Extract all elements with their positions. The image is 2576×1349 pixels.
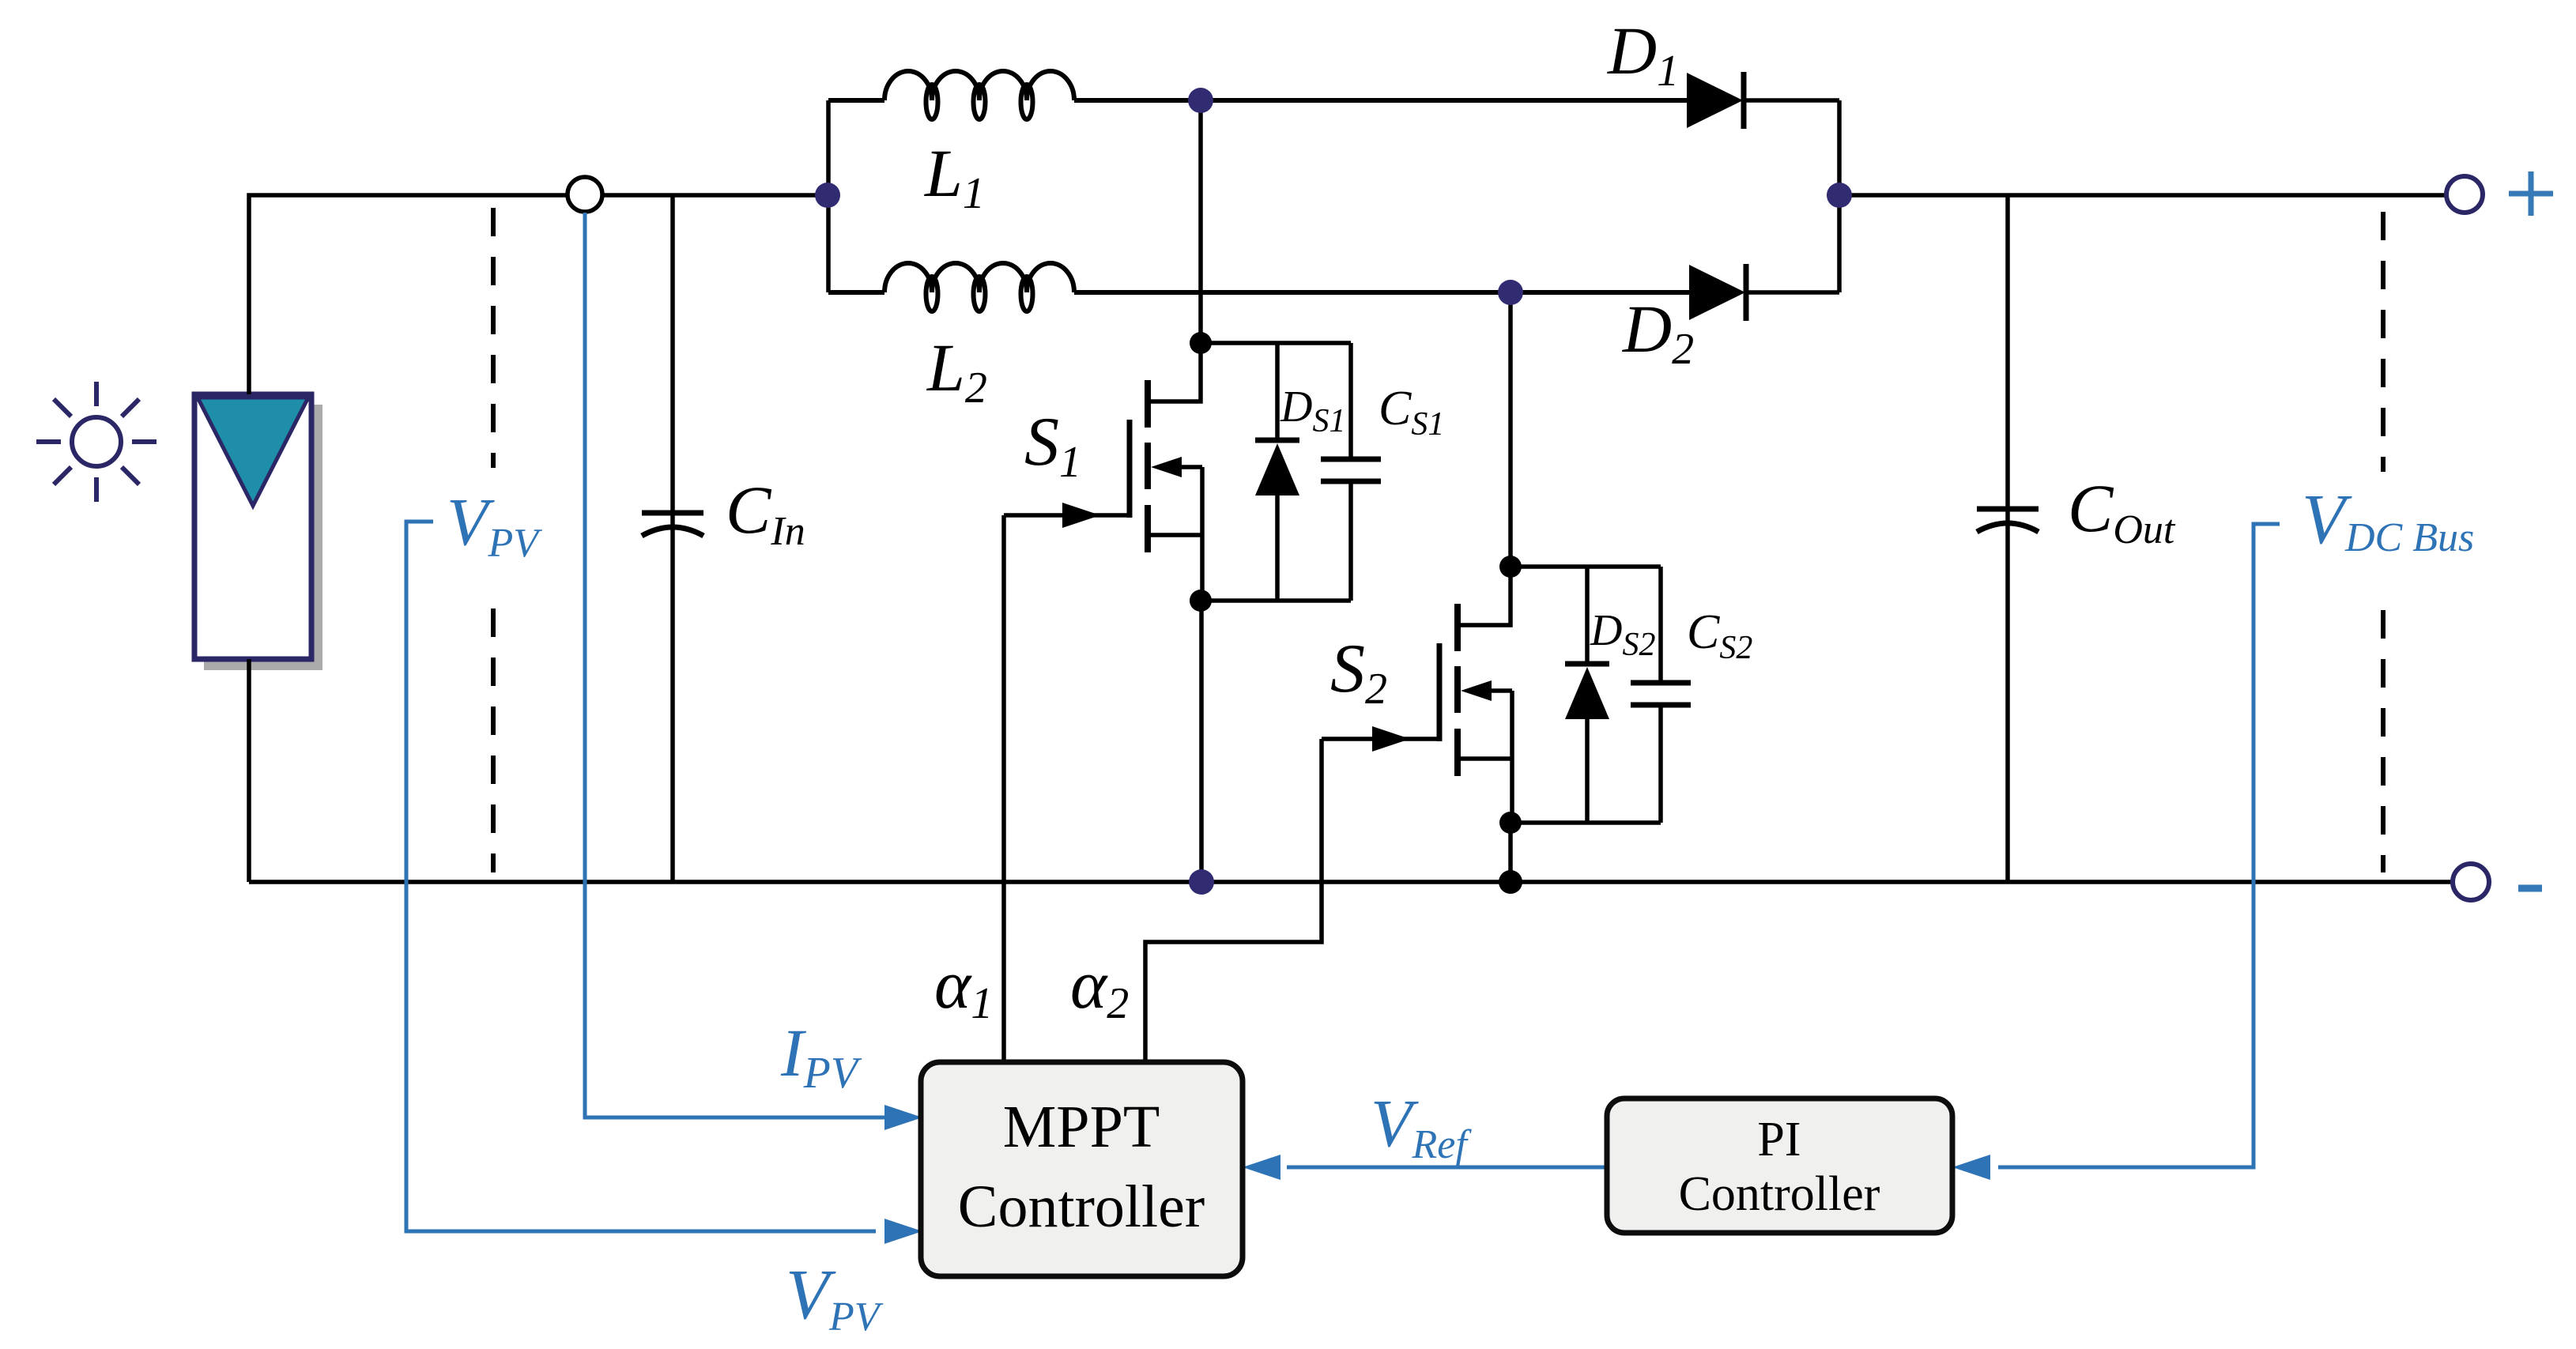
wire S1 snubber top xyxy=(1201,341,1351,345)
wire S2 snubber top xyxy=(1511,564,1661,569)
bottom rail (negative bus) xyxy=(249,880,2452,884)
minus sign xyxy=(2518,885,2542,892)
capacitor CS1 xyxy=(1321,343,1381,601)
wire output positive bus xyxy=(1839,193,2446,198)
PV panel arrow (cell symbol) xyxy=(198,398,308,506)
inductor L2 xyxy=(828,263,1689,311)
node input junction xyxy=(815,183,840,208)
node output junction xyxy=(1827,183,1852,208)
VPV arrowhead xyxy=(884,1219,922,1244)
VDCBus arrowhead xyxy=(1952,1155,1990,1180)
capacitor CS2 xyxy=(1631,567,1691,823)
svg-text:Controller: Controller xyxy=(1679,1167,1880,1221)
capacitor COut plates xyxy=(1977,509,2039,532)
dashed measurement line (V_PV) upper xyxy=(491,208,496,468)
PI controller box xyxy=(1607,1098,1952,1233)
wire S2 source to rail xyxy=(1508,823,1513,882)
svg-text:PI: PI xyxy=(1757,1113,1801,1166)
diode DS2 xyxy=(1565,567,1609,823)
output terminal + circle xyxy=(2446,176,2483,213)
wire PV+ to input node xyxy=(249,195,828,394)
S2 body arrow xyxy=(1461,680,1492,701)
S1 gate lead with arrow xyxy=(1004,513,1130,518)
wire diode-join vertical xyxy=(1837,100,1842,292)
capacitor CIn plates xyxy=(642,513,703,536)
PV panel shadow xyxy=(204,405,322,670)
wire VDCBus sense (blue) xyxy=(1998,524,2280,1167)
S2 gate lead with arrow xyxy=(1322,737,1439,741)
wire S2 snubber bottom xyxy=(1511,820,1661,825)
sun icon xyxy=(36,382,157,502)
node rail S1 junction xyxy=(1189,869,1214,895)
wire input split vertical xyxy=(826,100,831,292)
output terminal - circle xyxy=(2453,864,2489,900)
MPPT controller box xyxy=(921,1062,1243,1276)
node L2-S2 junction xyxy=(1498,280,1523,305)
dashed measurement line (V_DC Bus) upper xyxy=(2381,212,2386,472)
capacitor CIn wire xyxy=(670,195,675,882)
node rail S2 junction xyxy=(1499,870,1522,894)
inductor L1 xyxy=(828,71,1687,119)
node S2 source junction xyxy=(1499,812,1522,834)
dashed measurement line (V_PV) lower xyxy=(491,609,496,872)
wire S1 source to rail xyxy=(1199,601,1204,882)
wire S1 snubber bottom xyxy=(1201,598,1351,603)
svg-text:MPPT: MPPT xyxy=(1003,1094,1160,1160)
wire L1 node down to S1 drain xyxy=(1198,100,1203,343)
S1 body arrow xyxy=(1151,457,1182,477)
wire alpha1 gate line xyxy=(1001,515,1006,1062)
diode DS1 xyxy=(1255,343,1299,601)
transistor S1 (MOSFET) xyxy=(1130,343,1202,601)
dashed measurement line (V_DC Bus) lower xyxy=(2381,610,2386,872)
diode D1 xyxy=(1687,72,1839,129)
wire PV- down to bottom rail xyxy=(247,659,251,882)
input terminal circle xyxy=(568,177,602,212)
transistor S2 (MOSFET) xyxy=(1439,567,1512,823)
PV panel PV1 xyxy=(194,394,311,659)
plus sign xyxy=(2509,171,2553,216)
node S1 source junction xyxy=(1190,590,1212,612)
diode D2 xyxy=(1689,264,1839,321)
svg-text:Controller: Controller xyxy=(958,1174,1205,1240)
capacitor COut wire xyxy=(2005,195,2010,882)
IPV arrowhead xyxy=(884,1105,922,1130)
wire alpha2 gate line xyxy=(1145,739,1322,1062)
wire VRef (blue) xyxy=(1287,1166,1607,1170)
wire L2 node down to S2 drain xyxy=(1508,292,1513,567)
node L1-S1 junction xyxy=(1188,88,1213,113)
node S1 drain junction xyxy=(1190,332,1212,354)
wire IPV sense (blue) xyxy=(585,213,885,1117)
wire VPV sense (blue) xyxy=(406,522,876,1231)
VRef arrowhead xyxy=(1243,1155,1280,1180)
node S2 drain junction xyxy=(1499,556,1522,578)
